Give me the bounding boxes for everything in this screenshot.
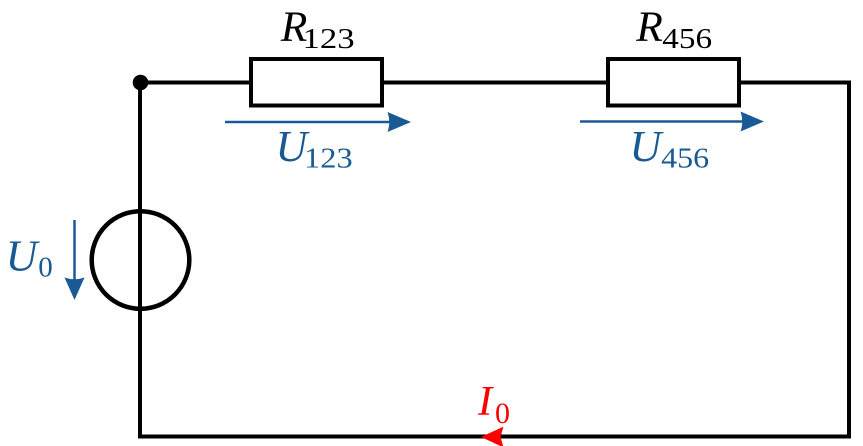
label U0 [6, 232, 53, 284]
source voltage arrow U0 (pointing down) [65, 220, 85, 300]
svg-text:0: 0 [38, 252, 53, 284]
svg-text:456: 456 [662, 22, 712, 55]
label R123 [280, 3, 355, 54]
voltage source U0 (circle) [92, 211, 190, 309]
label U456 [630, 122, 710, 174]
label U123 [276, 122, 353, 174]
resistor R456 (body) [608, 59, 739, 106]
voltage arrow U456 [580, 112, 764, 132]
label R456 [635, 3, 712, 55]
node A (junction dot top-left) [133, 75, 149, 91]
svg-text:123: 123 [303, 22, 355, 55]
wire: right side [847, 81, 851, 439]
svg-text:I: I [477, 378, 494, 425]
wire: top-left node to R123 [140, 81, 253, 85]
svg-text:R: R [635, 3, 663, 51]
wire: left side through voltage source [138, 81, 142, 439]
wire: R123 to R456 [380, 81, 610, 85]
wire: bottom [138, 435, 851, 439]
wire: R456 to top-right corner [737, 81, 851, 85]
svg-text:U: U [6, 232, 41, 281]
resistor R123 (body) [251, 59, 382, 106]
svg-text:U: U [630, 122, 665, 171]
svg-text:456: 456 [661, 142, 709, 174]
voltage arrow U123 [225, 112, 411, 132]
current arrow I0 (pointing left on bottom wire) [481, 427, 504, 446]
svg-text:0: 0 [495, 397, 510, 430]
svg-text:123: 123 [304, 142, 353, 174]
label I0 [477, 378, 510, 430]
